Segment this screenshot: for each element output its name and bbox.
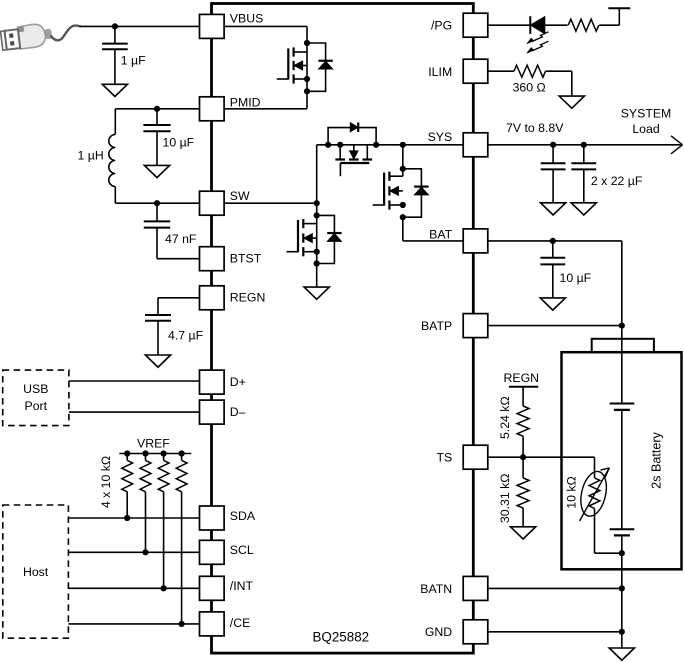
wire converter rail to SYS xyxy=(317,144,464,146)
wire BATN net xyxy=(488,587,622,589)
ground below C1 xyxy=(102,84,127,96)
wire /CE net xyxy=(68,623,199,625)
svg-text:D–: D– xyxy=(230,405,246,419)
ground below R4 xyxy=(511,527,536,539)
wire GND net xyxy=(488,631,622,633)
pin /INT xyxy=(200,576,225,600)
node SDA junction xyxy=(124,515,130,521)
wire battery negative xyxy=(621,535,623,553)
svg-text:4 x 10 kΩ: 4 x 10 kΩ xyxy=(99,456,113,508)
node BATN junction xyxy=(619,585,625,591)
wire TS net xyxy=(488,456,594,458)
wire SCL net xyxy=(68,551,199,553)
node Q4 diode cathode xyxy=(314,212,320,218)
wire Q1 drain from VBUS xyxy=(306,43,308,109)
ground main xyxy=(609,648,634,660)
wire ILIM to R2 xyxy=(488,70,514,72)
Host box xyxy=(3,505,69,638)
wire pull-up to /CE line xyxy=(181,492,183,624)
svg-text:BATP: BATP xyxy=(421,319,452,333)
svg-text:/CE: /CE xyxy=(230,616,251,630)
transistor Q4 low-side FET xyxy=(303,223,316,225)
wire between cells xyxy=(621,410,623,529)
battery pack 2s outline xyxy=(562,352,682,569)
node TS junction xyxy=(520,454,526,460)
pin VBUS xyxy=(200,14,225,38)
node Q1 drain xyxy=(304,40,310,46)
wire R3 to TS node xyxy=(522,436,524,457)
node rail-diode left xyxy=(325,142,331,148)
battery cell B2 xyxy=(610,528,635,530)
svg-text:47 nF: 47 nF xyxy=(165,232,197,246)
resistor R2 360 ohm xyxy=(514,65,546,77)
capacitor C5 22 uF xyxy=(552,145,554,163)
node BATP-battery junction xyxy=(619,323,625,329)
wire pull-up to /INT line xyxy=(163,492,165,589)
wire SW net left xyxy=(115,202,199,204)
pin D+ xyxy=(200,370,225,394)
thermistor RT1 10 kOhm NTC xyxy=(589,478,600,509)
svg-text:10 µF: 10 µF xyxy=(560,271,592,285)
wire REGN to C4 xyxy=(158,297,200,299)
wire battery negative to GND xyxy=(621,553,623,648)
node SW internal junction xyxy=(314,200,320,206)
svg-text:BATN: BATN xyxy=(420,582,452,596)
node Q3 diode anode xyxy=(400,214,406,220)
node VREF rail junction SDA xyxy=(124,450,130,456)
node rail-Q2 left stub xyxy=(337,142,343,148)
svg-text:VBUS: VBUS xyxy=(230,12,263,26)
svg-text:BQ25882: BQ25882 xyxy=(313,630,370,645)
wire BATP net xyxy=(488,325,622,327)
wire /INT net xyxy=(68,587,199,589)
wire Q1 source to PMID pin xyxy=(224,108,307,110)
svg-text:BTST: BTST xyxy=(230,252,262,266)
pin SDA xyxy=(200,506,225,530)
wire battery positive xyxy=(621,326,623,404)
svg-text:SW: SW xyxy=(230,189,250,203)
svg-text:PMID: PMID xyxy=(230,96,261,110)
capacitor C6 22 uF xyxy=(583,145,585,163)
svg-text:REGN: REGN xyxy=(504,371,540,385)
node VREF rail junction SCL xyxy=(142,450,148,456)
node Q1 diode anode xyxy=(304,88,310,94)
svg-text:1 µH: 1 µH xyxy=(78,149,104,163)
wire Q4 source to ground xyxy=(316,264,318,288)
wire Q3 drain from SYS rail xyxy=(402,145,404,176)
capacitor C7 10 uF xyxy=(552,241,554,258)
pin PMID xyxy=(200,97,225,121)
node PMID-C2 junction xyxy=(154,106,160,112)
pin SCL xyxy=(200,540,225,564)
pin SW xyxy=(200,191,225,215)
resistor pull-up 10k for /CE xyxy=(181,454,183,461)
node Q4 source-body xyxy=(314,249,320,255)
svg-text:10 µF: 10 µF xyxy=(163,136,195,150)
node Q3 source-body xyxy=(400,202,406,208)
svg-text:4.7 µF: 4.7 µF xyxy=(168,329,204,343)
wire REGN to R3 xyxy=(522,387,524,406)
ground below C2 xyxy=(144,165,169,177)
svg-text:2s Battery: 2s Battery xyxy=(650,431,664,488)
wire PMID net left xyxy=(115,108,199,110)
ground below C7 xyxy=(540,298,565,310)
node SYS-C5 junction xyxy=(550,142,556,148)
pin BTST xyxy=(200,247,225,271)
wire SW to low-side FET xyxy=(224,202,317,204)
ground below C6 xyxy=(571,203,596,215)
svg-text:REGN: REGN xyxy=(230,291,266,305)
capacitor C3 47 nF bootstrap xyxy=(156,203,158,221)
node /INT junction xyxy=(161,585,167,591)
svg-text:Port: Port xyxy=(25,399,48,413)
svg-text:1 µF: 1 µF xyxy=(121,54,146,68)
pin BATP xyxy=(463,314,488,338)
resistor pull-up 10k for /INT xyxy=(163,454,165,461)
wire pull-up to SCL line xyxy=(145,492,147,553)
pin SYS xyxy=(463,133,488,157)
USB Port box xyxy=(3,370,69,426)
wire pull-up to SDA line xyxy=(126,492,128,518)
svg-text:/PG: /PG xyxy=(431,18,452,32)
node VREF rail junction /INT xyxy=(161,450,167,456)
wire R4 to ground xyxy=(522,508,524,527)
ground below Q4 xyxy=(304,287,329,299)
svg-text:BAT: BAT xyxy=(429,227,452,241)
wire D+ net xyxy=(69,380,200,382)
wire Q4 drain xyxy=(316,203,318,263)
svg-text:ILIM: ILIM xyxy=(428,65,452,79)
svg-text:VREF: VREF xyxy=(137,436,170,450)
wire R1 to supply rail xyxy=(599,24,619,26)
pin /CE xyxy=(200,612,225,636)
pin ILIM xyxy=(463,59,488,83)
node SW-C3 junction xyxy=(154,200,160,206)
wire TS to thermistor xyxy=(594,457,596,478)
LED D1 power good indicator xyxy=(529,16,531,34)
wire BAT to battery positive xyxy=(621,241,623,326)
wire TS to R4 xyxy=(522,457,524,478)
resistor R1 LED series xyxy=(568,19,599,31)
wire D- net xyxy=(69,411,200,413)
svg-text:D+: D+ xyxy=(230,375,246,389)
pin TS xyxy=(463,445,488,469)
capacitor C4 4.7 uF xyxy=(145,314,171,316)
wire /PG to LED xyxy=(488,24,531,26)
battery pack terminal tab xyxy=(592,339,654,352)
pin BATN xyxy=(463,576,488,600)
svg-text:GND: GND xyxy=(425,625,452,639)
battery cell B1 xyxy=(610,403,635,405)
ground below C5 xyxy=(541,203,566,215)
pin GND xyxy=(463,620,488,644)
resistor pull-up 10k for SCL xyxy=(145,454,147,461)
inductor L1 1 uH xyxy=(114,109,116,135)
svg-text:360 Ω: 360 Ω xyxy=(513,81,546,95)
wire SDA net xyxy=(68,517,199,519)
wire R2 to ground xyxy=(546,70,572,72)
pin REGN xyxy=(200,286,225,310)
capacitor C2 10 uF xyxy=(156,109,158,125)
transistor Q3 BATFET xyxy=(389,175,402,177)
svg-text:Host: Host xyxy=(23,565,49,579)
node Q1 source-body xyxy=(304,76,310,82)
node battery negative junction xyxy=(619,550,625,556)
resistor R3 5.24 kOhm xyxy=(517,406,529,436)
node VBUS-C1 junction xyxy=(112,23,118,29)
svg-text:Load: Load xyxy=(632,122,660,136)
node GND junction xyxy=(619,629,625,635)
LED D1 emission arrows xyxy=(527,32,549,53)
wire BAT net xyxy=(488,240,622,242)
ground below C4 xyxy=(145,355,170,367)
svg-text:SDA: SDA xyxy=(230,509,256,523)
svg-text:SCL: SCL xyxy=(230,543,254,557)
node /CE junction xyxy=(179,621,185,627)
REGN rail bar xyxy=(509,386,538,388)
wire Q3 source to BAT pin xyxy=(402,217,404,241)
IC U1 BQ25882 outline xyxy=(212,4,474,654)
wire SYS output net xyxy=(488,144,683,146)
ground below R2 xyxy=(559,96,584,108)
resistor pull-up 10k for SDA xyxy=(126,454,128,461)
node BAT-C7 junction xyxy=(550,238,556,244)
svg-text:30.31 kΩ: 30.31 kΩ xyxy=(498,474,512,524)
svg-text:2 x 22 µF: 2 x 22 µF xyxy=(591,174,643,188)
svg-text:SYSTEM: SYSTEM xyxy=(621,106,672,120)
pin /PG xyxy=(463,13,488,37)
resistor R4 30.31 kOhm xyxy=(517,478,529,508)
svg-text:SYS: SYS xyxy=(428,130,453,144)
VREF rail xyxy=(119,453,191,455)
capacitor C1 1 uF xyxy=(114,26,116,43)
wire thermistor to battery negative xyxy=(594,509,596,554)
svg-text:USB: USB xyxy=(23,382,48,396)
svg-text:5.24 kΩ: 5.24 kΩ xyxy=(498,396,512,439)
node SYS-Q3 junction xyxy=(400,142,406,148)
node Q3 diode cathode xyxy=(400,166,406,172)
node SCL junction xyxy=(142,549,148,555)
transistor Q1 input blocking FET xyxy=(294,51,307,53)
wire VBUS input net xyxy=(80,25,200,27)
node SYS-C6 junction xyxy=(581,142,587,148)
pin BAT xyxy=(463,229,488,253)
node VREF rail junction /CE xyxy=(179,450,185,456)
supply rail tap symbol xyxy=(608,7,630,9)
transistor Q2 high-side FET (rotated) xyxy=(339,145,341,160)
svg-text:10 kΩ: 10 kΩ xyxy=(565,476,579,508)
pin D– xyxy=(200,400,225,424)
USB input plug J1 xyxy=(0,22,80,51)
svg-text:TS: TS xyxy=(436,450,452,464)
SYSTEM load arrow xyxy=(671,136,683,145)
svg-text:7V to 8.8V: 7V to 8.8V xyxy=(506,121,564,135)
svg-text:/INT: /INT xyxy=(230,579,254,593)
node rail-diode right xyxy=(373,142,379,148)
node Q4 diode anode xyxy=(314,260,320,266)
diode D2 across Q2 xyxy=(328,128,376,145)
